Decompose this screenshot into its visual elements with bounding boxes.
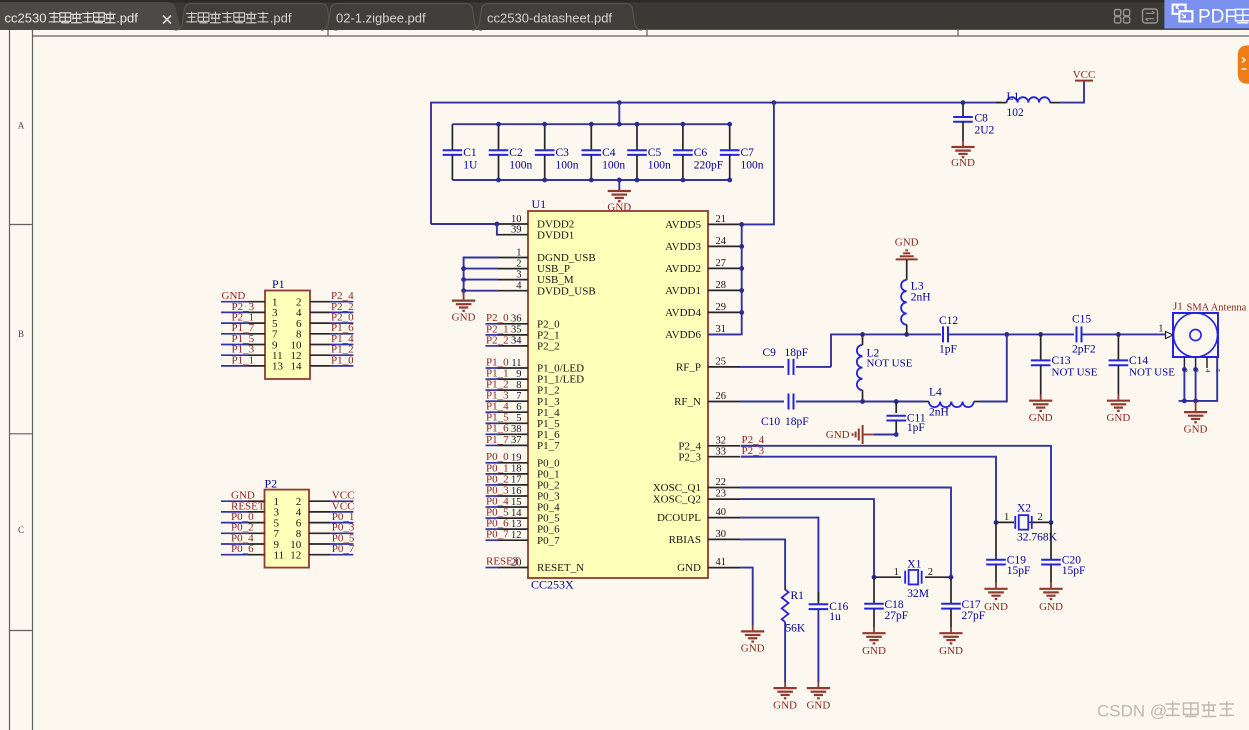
svg-text:L4: L4 [929,387,942,399]
pin 10 P1 right [310,344,330,346]
svg-text:GND: GND [939,645,963,657]
svg-text:1pF: 1pF [907,422,925,434]
svg-text:C: C [18,525,24,535]
pin 5 P1_5 [498,422,529,424]
capacitor C9 [740,366,784,368]
svg-text:5: 5 [516,413,521,424]
wire P2_4 to X2 pin2 [741,446,1051,523]
pin 2 P2 right [309,500,330,502]
svg-text:7: 7 [516,391,521,402]
resistor R1 [784,586,786,590]
pin 7 P1_3 [498,400,529,402]
inductor L2 (NOT USE) [857,345,863,390]
svg-text:X1: X1 [907,558,921,570]
svg-text:GND: GND [951,157,975,169]
active tab: cc2530核心板原理图.pdf [0,2,181,30]
wire cap-bank top rail [618,103,620,125]
svg-text:100n: 100n [648,159,671,171]
ground below C8 [962,141,964,147]
capacitor C19 [995,522,997,559]
svg-text:11: 11 [511,358,521,369]
svg-text:R1: R1 [791,590,805,602]
svg-text:21: 21 [716,214,727,225]
pin 7 P2 left [221,532,248,534]
svg-text:P2: P2 [265,477,278,491]
node cap-bank tap [617,100,622,105]
svg-text:CSDN @: CSDN @ [1097,702,1167,721]
pin 12 P1 right [310,354,330,356]
svg-text:C13: C13 [1052,355,1071,367]
pins 2-5 of J1 [1183,357,1185,368]
node C8 tap [961,100,966,105]
connector J1 SMA Antenna [1173,313,1218,357]
tab 3: 02-1.zigbee.pdf [321,4,482,31]
svg-text:2: 2 [516,258,521,269]
node L4 riser [1004,332,1009,337]
svg-text:41: 41 [716,557,727,568]
node cap-bank top [727,122,732,127]
svg-text:P1_0: P1_0 [331,354,354,366]
svg-text:2nH: 2nH [929,406,949,418]
capacitor C16 [817,592,819,604]
svg-text:11: 11 [274,550,285,562]
svg-text:1: 1 [516,247,521,258]
capacitor C4 [590,124,592,150]
pin 6 P2 right [309,522,330,524]
tab bar [0,0,1249,30]
node P1_1 net label [486,378,500,380]
svg-text:SMA Antenna: SMA Antenna [1187,303,1247,314]
svg-text:XOSC_Q1: XOSC_Q1 [653,482,701,494]
node AVDD riser tap [772,100,777,105]
crystal X1 [874,576,901,578]
node P1_3 net label [486,400,500,402]
svg-text:30: 30 [716,529,727,540]
svg-text:RF_P: RF_P [676,362,701,374]
wire J1 ground net [1183,369,1185,401]
capacitor C18 [873,577,875,604]
wire C9 riser [831,334,941,367]
pin 36 P2_0 [498,323,529,325]
svg-text:C8: C8 [975,113,989,125]
node C13 tap [1038,332,1043,337]
svg-text:100n: 100n [602,159,625,171]
node J1 pin3 [1193,367,1198,372]
svg-text:C2: C2 [509,147,523,159]
svg-text:XOSC_Q2: XOSC_Q2 [653,494,701,506]
svg-text:P2_3: P2_3 [742,445,765,457]
pin 39 DVDD1 [498,234,529,236]
ground below C19 [995,583,997,589]
pin 40 DCOUPL [708,517,740,519]
svg-text:6: 6 [516,402,521,413]
svg-text:DVDD1: DVDD1 [537,229,574,241]
ground below C16 [817,682,819,688]
svg-text:28: 28 [716,280,727,291]
pin 1 P2 left [221,500,248,502]
node cap-bank top [496,122,501,127]
node cap-bank bottom [542,178,547,183]
svg-text:25: 25 [716,357,727,368]
pin 10 P2 right [309,543,330,545]
toolbar swap icon [1143,9,1158,23]
inductor L4 [929,402,974,408]
svg-text:02-1.zigbee.pdf: 02-1.zigbee.pdf [336,11,426,26]
svg-text:2: 2 [1038,512,1043,523]
wire rail to J1 [1118,333,1165,335]
svg-text:GND: GND [677,562,701,574]
svg-text:37: 37 [511,435,522,446]
svg-text:J1: J1 [1173,301,1183,313]
svg-text:DCOUPL: DCOUPL [657,512,701,524]
svg-text:14: 14 [291,361,303,373]
capacitor C2 [498,124,500,150]
svg-text:P2_2: P2_2 [486,334,509,346]
node J1 pin2 [1182,367,1187,372]
pin 34 P2_2 [498,345,529,347]
node AVDD pin 21 [739,222,744,227]
pin 6 P1_4 [498,411,529,413]
orange side button [1238,45,1249,83]
svg-text:C4: C4 [602,147,616,159]
svg-text:AVDD5: AVDD5 [665,219,701,231]
wire pin41 to ground [740,568,753,625]
svg-text:P1_7: P1_7 [486,434,509,446]
svg-text:15pF: 15pF [1062,565,1086,577]
svg-text:16: 16 [511,486,522,497]
svg-text:2: 2 [928,567,933,578]
node DVDD_USB junction [461,288,466,293]
svg-text:GND: GND [895,236,919,248]
pin 32 P2_4 [708,445,740,447]
svg-text:4: 4 [516,281,522,292]
wire RBIAS to R1 [740,539,785,586]
node P0_5 net label [486,517,500,519]
wire L4 riser [980,334,1007,401]
node cap-bank bottom [635,178,640,183]
tab 4: cc2530-datasheet.pdf [472,4,642,31]
node P1_7 net label [486,444,500,446]
node C11 tap [894,399,899,404]
svg-text:GND: GND [1039,601,1063,613]
svg-text:56K: 56K [785,623,806,635]
ground below C13 [1040,395,1042,401]
pin 12 P0_7 [498,539,529,541]
node AVDD pin 24 [739,244,744,249]
node USB_P junction [461,266,466,271]
svg-text:GND: GND [452,312,476,324]
pin 19 P0_0 [498,462,529,464]
node P1_4 net label [486,411,500,413]
svg-text:GND: GND [773,699,797,711]
svg-text:RESET: RESET [486,556,520,568]
svg-text:22: 22 [716,477,727,488]
svg-text:2nH: 2nH [911,292,931,304]
svg-text:1: 1 [1158,324,1163,335]
svg-text:24: 24 [716,236,727,247]
svg-text:GND: GND [984,601,1008,613]
pin 5 P2 left [221,522,248,524]
svg-text:.pdf: .pdf [270,11,292,26]
svg-text:P2_2: P2_2 [537,341,560,353]
svg-text:AVDD2: AVDD2 [665,263,701,275]
capacitor C1 [451,124,453,150]
svg-text:14: 14 [511,508,522,519]
sheet border frame [9,30,11,730]
svg-text:31: 31 [716,324,727,335]
svg-text:X2: X2 [1017,503,1031,515]
svg-text:100n: 100n [556,159,579,171]
pin 7 P1 left [221,333,248,335]
node cap-bank bottom [727,178,732,183]
svg-text:GND: GND [806,699,830,711]
node P0_4 net label [486,506,500,508]
capacitor C5 [636,124,638,150]
svg-text:C10: C10 [761,416,780,428]
pin 3 USB_M [498,279,529,281]
node P1_6 net label [486,433,500,435]
pin 8 P2 right [309,532,330,534]
node bank riser top [617,122,622,127]
pin 17 P0_2 [498,484,529,486]
capacitor C20 [1050,522,1052,559]
svg-text:27: 27 [716,258,727,269]
svg-text:17: 17 [511,475,522,486]
svg-text:36: 36 [511,314,522,325]
pin 22 XOSC_Q1 [708,487,740,489]
svg-text:P2_3: P2_3 [678,451,701,463]
pin 37 P1_7 [498,444,529,446]
node bank riser bottom [617,178,622,183]
svg-text:2pF2: 2pF2 [1072,344,1096,356]
svg-text:NOT USE: NOT USE [867,358,913,370]
toolbar grid icon [1115,10,1121,16]
PDF merge button [1164,0,1249,29]
wire top VCC rail [431,103,963,224]
power port VCC [1075,80,1093,82]
pin 3 P2 left [221,511,248,513]
pin 1 arrow into J1 [1166,332,1174,339]
ground left of C11 [863,434,874,436]
pin 1 P1 left [221,301,248,303]
svg-text:1U: 1U [463,159,478,171]
ground below cap bank [608,190,631,192]
svg-text:NOT USE: NOT USE [1052,367,1098,379]
svg-text:AVDD3: AVDD3 [665,241,701,253]
svg-text:GND: GND [826,429,850,441]
wire XOSC_Q2 to X1 pin1 [740,499,874,577]
node AVDD pin 27 [739,266,744,271]
svg-text:8: 8 [516,380,521,391]
node P0_0 net label [486,462,500,464]
svg-text:32: 32 [716,435,727,446]
svg-text:DVDD_USB: DVDD_USB [537,285,596,297]
svg-text:9: 9 [516,369,521,380]
wire bank to ground [618,180,620,191]
pin 11 P1 left [221,354,248,356]
svg-text:1u: 1u [829,611,841,623]
svg-text:38: 38 [511,424,522,435]
ground below C20 [1050,583,1052,589]
svg-text:GND: GND [741,643,765,655]
pin 1 DGND_USB [498,257,529,259]
op-amp U1 (CC253X MCU) [528,211,708,578]
svg-text:13: 13 [272,361,284,373]
svg-text:18pF: 18pF [785,347,809,359]
svg-text:B: B [18,329,24,339]
pin 35 P2_1 [498,334,529,336]
pin 38 P1_6 [498,433,529,435]
svg-text:23: 23 [716,489,727,500]
svg-text:U1: U1 [532,197,547,211]
svg-text:CC253X: CC253X [531,578,574,592]
svg-text:34: 34 [511,336,522,347]
wire to pin 39 [496,224,499,235]
node X2 pin1 [994,520,999,525]
capacitor C11 [895,402,897,414]
svg-text:P1: P1 [272,277,285,291]
svg-text:35: 35 [511,325,522,336]
node cap-bank top [681,122,686,127]
capacitor C17 [950,577,952,604]
wire USB ground bus [464,258,498,295]
node J1 gnd bar a [1182,399,1187,404]
pin 4 P1 right [310,311,330,313]
svg-text:10: 10 [511,214,522,225]
pin 30 RBIAS [708,538,740,540]
capacitor C14 (NOT USE) [1117,334,1119,360]
node AVDD pin 28 [739,288,744,293]
pin 29 AVDD4 [708,311,740,313]
node DVDD junction [495,222,500,227]
pin 9 P1_1/LED [498,378,529,380]
node L2 top [860,332,865,337]
svg-text:NOT USE: NOT USE [1129,367,1175,379]
pin 13 P1 left [221,365,248,367]
wire DCOUPL to C16 [740,518,818,601]
pin 24 AVDD3 [708,245,740,247]
node P0_3 net label [486,495,500,497]
svg-text:40: 40 [716,507,727,518]
svg-text:2U2: 2U2 [975,125,995,137]
pin 20 RESET_N [498,567,529,569]
svg-text:L1: L1 [1007,91,1020,103]
pin 8 P1 right [310,333,330,335]
svg-text:RBIAS: RBIAS [669,534,701,546]
pin 27 AVDD2 [708,267,740,269]
svg-text:39: 39 [511,225,522,236]
svg-text:1: 1 [894,567,899,578]
ground below C18 [873,627,875,633]
ground below R1 [784,682,786,688]
ground below C17 [950,627,952,633]
svg-text:C12: C12 [939,315,958,327]
wire rail to C15 [1041,333,1074,335]
ground below J1 [1195,401,1197,412]
svg-text:VCC: VCC [1073,69,1096,81]
svg-text:A: A [18,121,25,131]
svg-text:C18: C18 [885,599,904,611]
pin 4 P2 right [309,511,330,513]
svg-text:100n: 100n [509,159,532,171]
wire L1 to VCC [1060,81,1084,103]
pin 12 P2 right [309,554,330,556]
svg-text:C14: C14 [1129,355,1148,367]
svg-text:P1_1: P1_1 [232,354,255,366]
svg-text:26: 26 [716,391,727,402]
pin 23 XOSC_Q2 [708,498,740,500]
pin 14 P1 right [310,365,330,367]
svg-text:C1: C1 [463,147,477,159]
pin 18 P0_1 [498,473,529,475]
svg-text:C5: C5 [648,147,662,159]
pin 2 USB_P [498,268,529,270]
inductor L3 [906,259,908,280]
node P0_7 net label [486,539,500,541]
svg-text:GND: GND [862,645,886,657]
pin 10 DVDD2 [498,223,529,225]
capacitor C12 [942,326,944,342]
svg-text:18pF: 18pF [785,416,809,428]
node X2 pin2 [1049,520,1054,525]
wire rail to L1 [963,102,1001,104]
pin 14 P0_5 [498,517,529,519]
node L2 bottom [860,399,865,404]
pin 8 P1_2 [498,389,529,391]
node cap-bank top [542,122,547,127]
pin 9 P1 left [221,344,248,346]
crystal X2 [996,521,1014,523]
pin 33 P2_3 [708,456,740,458]
ground below C14 [1117,395,1119,401]
svg-text:15pF: 15pF [1007,565,1031,577]
svg-text:C3: C3 [556,147,570,159]
pin 6 P1 right [310,322,330,324]
node P2_0 net label [486,323,500,325]
svg-text:AVDD1: AVDD1 [665,285,701,297]
pin 16 P0_3 [498,495,529,497]
capacitor C3 [544,124,546,150]
node P0_2 net label [486,484,500,486]
ground USB bus [463,291,465,301]
capacitor C6 [682,124,684,150]
pin 4 DVDD_USB [498,290,529,292]
capacitor C15 [1076,326,1078,342]
svg-text:cc2530-datasheet.pdf: cc2530-datasheet.pdf [487,11,612,26]
svg-text:.pdf: .pdf [116,11,138,26]
node cap-bank bottom [496,178,501,183]
pin 11 P1_0/LED [498,367,529,369]
svg-text:15: 15 [511,497,522,508]
svg-text:P0_7: P0_7 [332,543,355,555]
node P0_1 net label [486,473,500,475]
svg-text:12: 12 [290,550,301,562]
svg-text:29: 29 [716,302,727,313]
svg-text:GND: GND [1184,424,1208,436]
svg-text:P0_7: P0_7 [486,529,509,541]
svg-text:P1_7: P1_7 [537,440,560,452]
svg-text:C15: C15 [1072,314,1091,326]
pin 9 P2 left [221,543,248,545]
svg-text:33: 33 [716,446,727,457]
svg-text:3: 3 [516,269,521,280]
node RESET net label [486,567,500,569]
connector P2 [265,490,310,568]
node C11 ground [894,432,899,437]
svg-text:18: 18 [511,464,522,475]
svg-text:102: 102 [1007,107,1025,119]
svg-text:C6: C6 [694,147,708,159]
